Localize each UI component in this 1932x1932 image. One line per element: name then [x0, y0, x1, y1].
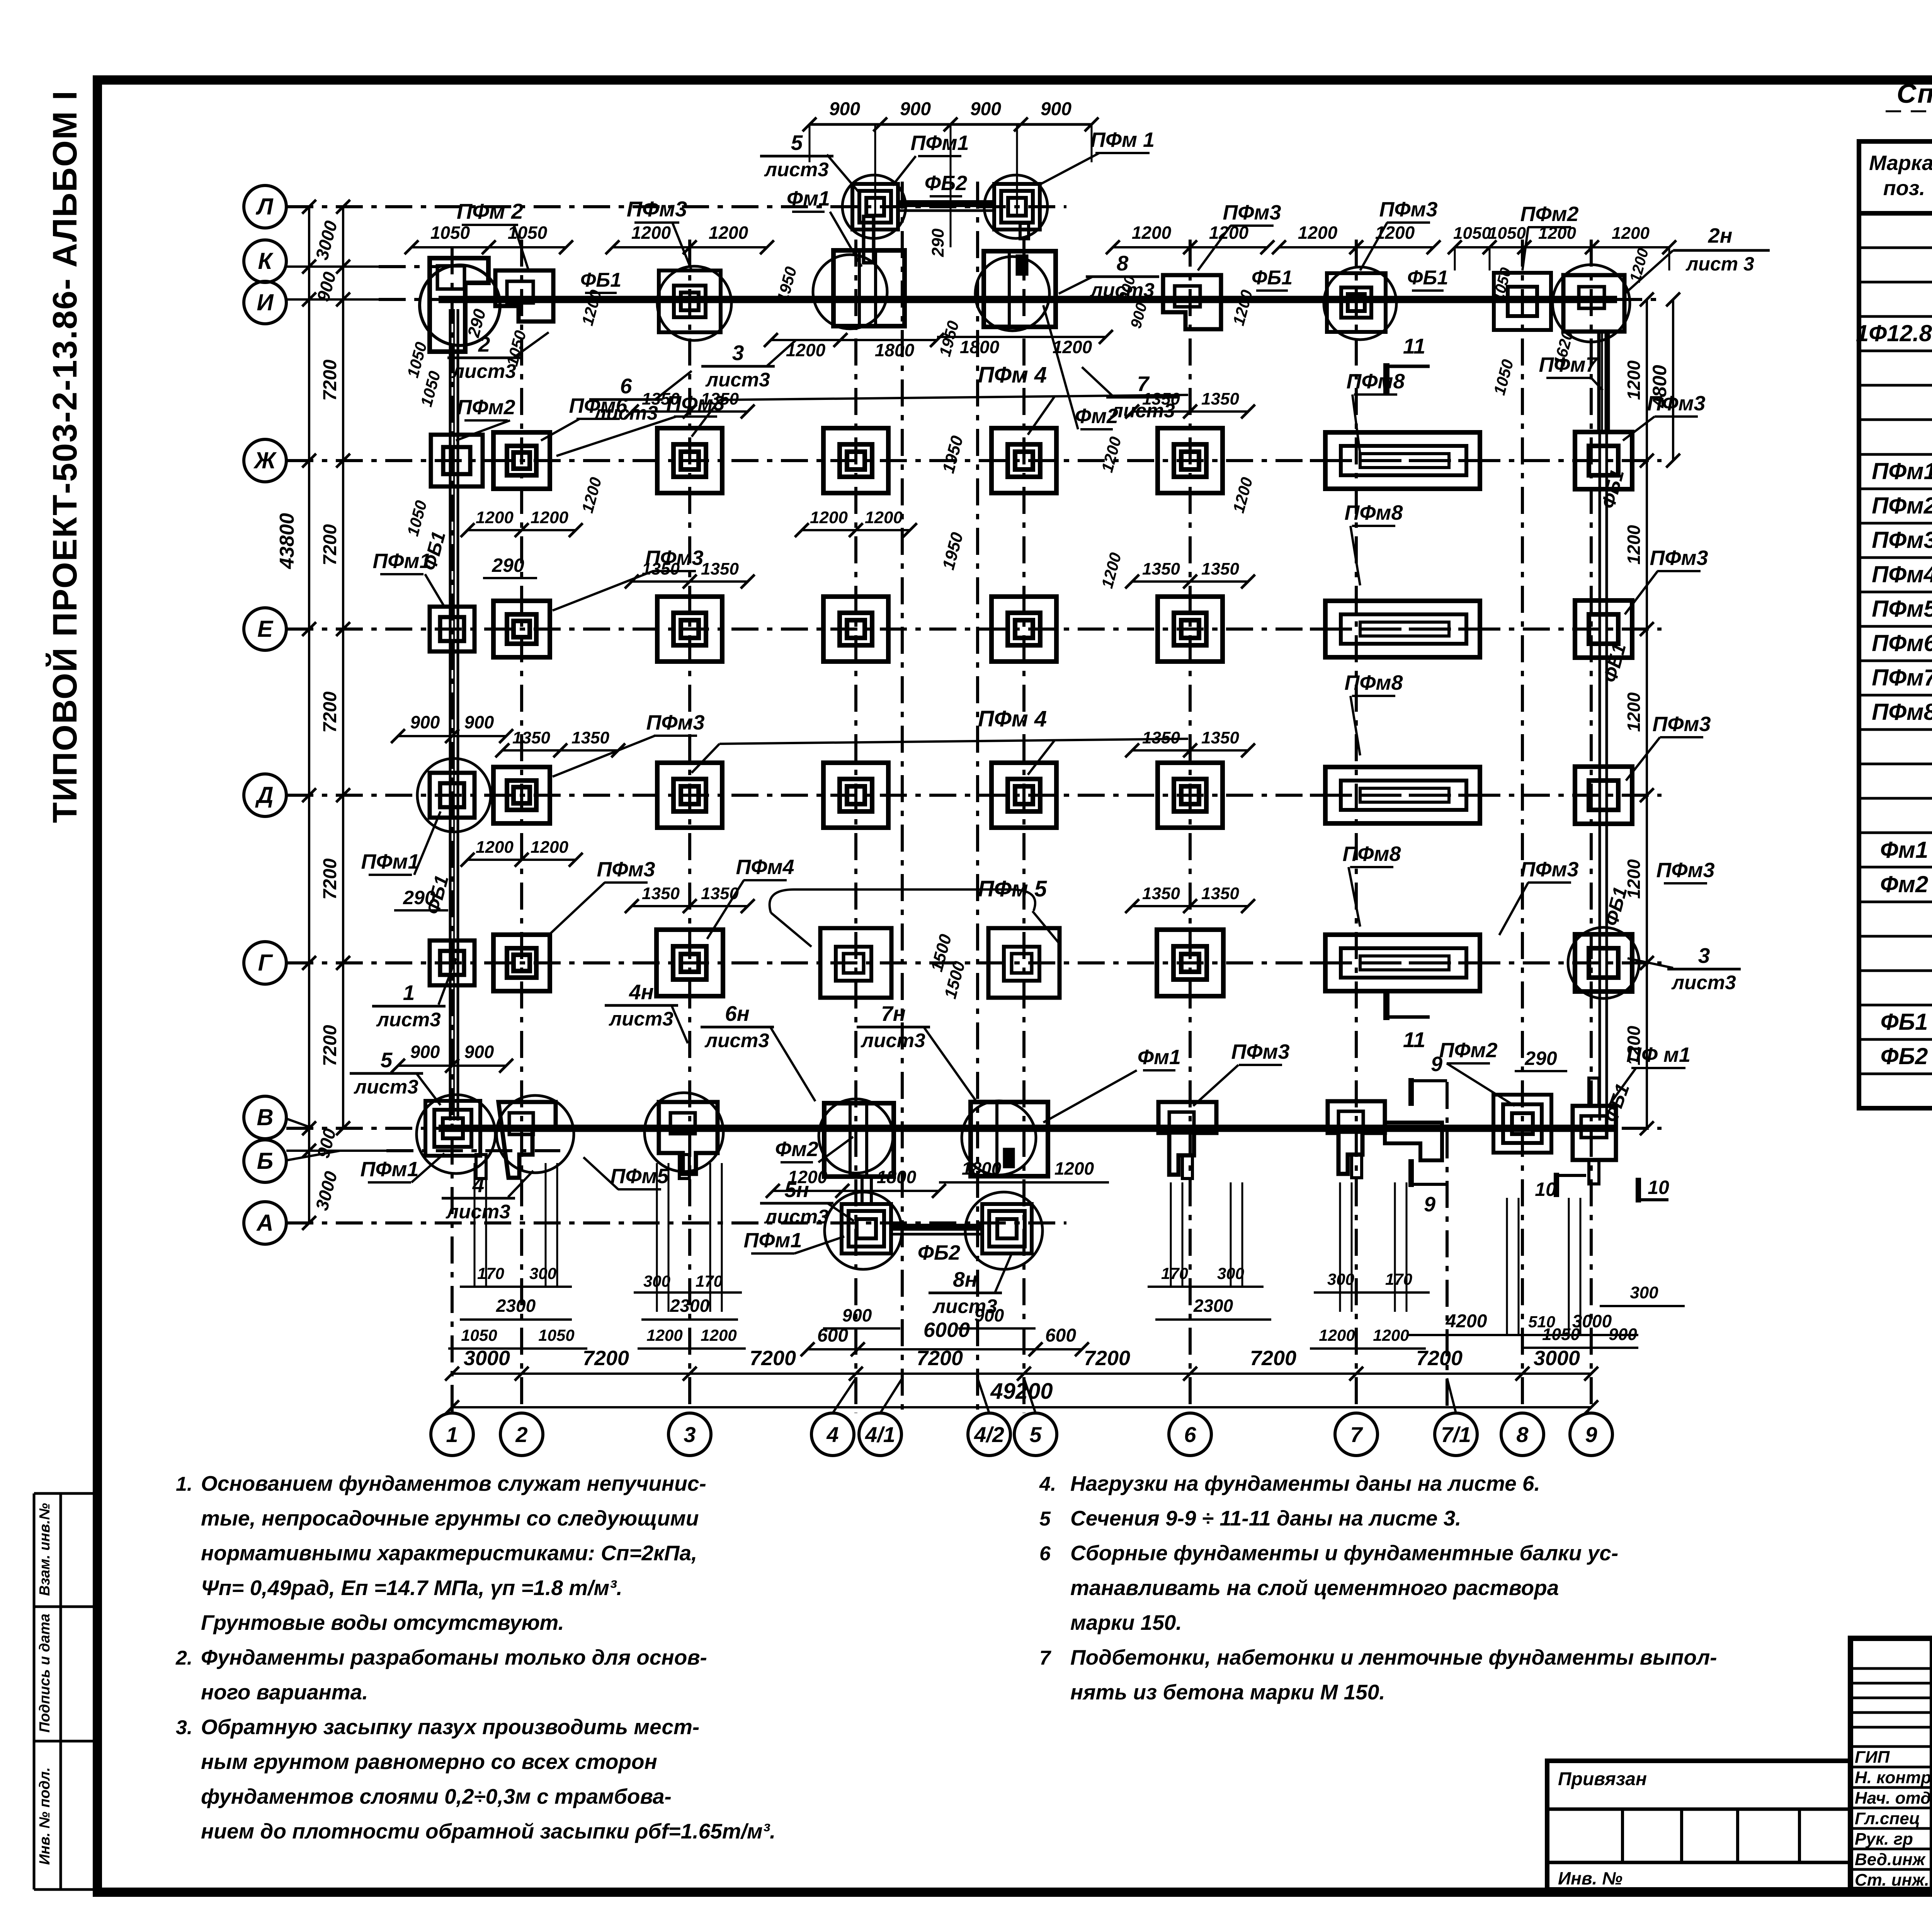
- svg-text:1350: 1350: [701, 560, 739, 578]
- svg-text:марки 150.: марки 150.: [1070, 1611, 1182, 1634]
- svg-text:4800: 4800: [1649, 365, 1670, 408]
- beam stubs row V: [476, 1155, 486, 1179]
- right dimension chain col9: [1646, 299, 1648, 1128]
- svg-text:900: 900: [829, 99, 860, 119]
- svg-text:300: 300: [529, 1264, 556, 1282]
- svg-text:Марка,: Марка,: [1869, 151, 1932, 175]
- svg-text:10: 10: [1535, 1179, 1556, 1200]
- svg-text:6: 6: [1184, 1422, 1196, 1447]
- svg-text:ПФм4: ПФм4: [736, 855, 794, 879]
- svg-text:1350: 1350: [642, 560, 680, 578]
- svg-text:ПФм3: ПФм3: [597, 858, 655, 881]
- dims 1200 1800 bottom row V: [773, 1190, 939, 1192]
- svg-text:Сечения 9-9 ÷ 11-11 даны на: Сечения 9-9 ÷ 11-11 даны на листе 3.: [1070, 1506, 1461, 1530]
- svg-text:1350: 1350: [701, 884, 739, 903]
- svg-text:900: 900: [1609, 1325, 1637, 1344]
- bottom dimension chains: [452, 1372, 1591, 1375]
- svg-text:Взам. инв.№: Взам. инв.№: [37, 1503, 53, 1596]
- svg-text:лист3: лист3: [376, 1009, 440, 1031]
- svg-text:лист3: лист3: [705, 369, 770, 391]
- svg-text:290: 290: [1524, 1048, 1557, 1069]
- svg-text:Е: Е: [257, 616, 274, 642]
- svg-text:7200: 7200: [320, 691, 340, 733]
- inner dims 1350 pairs: [632, 410, 748, 413]
- row V col3 corner piece in circle: [659, 1102, 718, 1174]
- svg-text:1Ф12.8-3: 1Ф12.8-3: [1856, 320, 1932, 346]
- link from Л foundation to Fm1: [864, 216, 874, 263]
- svg-text:6н: 6н: [725, 1002, 750, 1026]
- svg-text:ПФм2: ПФм2: [1520, 202, 1579, 226]
- svg-text:тые, непросадочные грунты со: тые, непросадочные грунты со следующими: [201, 1506, 699, 1530]
- svg-text:2300: 2300: [496, 1296, 536, 1316]
- svg-text:Ст. инж.: Ст. инж.: [1855, 1871, 1929, 1889]
- row A bottom pair with FB2: [842, 1204, 891, 1253]
- svg-text:лист3: лист3: [445, 1201, 510, 1223]
- svg-text:Рук. гр: Рук. гр: [1855, 1830, 1913, 1849]
- section mark 11-11 bottom: [1383, 989, 1389, 1020]
- svg-text:7200: 7200: [1416, 1347, 1463, 1370]
- PFm8 plates rows Ж..Г: [1325, 432, 1480, 489]
- svg-text:5: 5: [1029, 1422, 1042, 1447]
- svg-text:ПФм3: ПФм3: [646, 711, 705, 734]
- svg-text:2: 2: [515, 1422, 527, 1447]
- svg-text:1200: 1200: [1375, 223, 1415, 243]
- svg-text:ПФм8: ПФм8: [1345, 501, 1403, 524]
- svg-text:А: А: [256, 1210, 273, 1236]
- svg-text:ПФм5: ПФм5: [611, 1165, 669, 1188]
- FB1 beam row I: [439, 296, 1617, 303]
- svg-text:7200: 7200: [320, 524, 340, 565]
- svg-text:4200: 4200: [1446, 1311, 1487, 1332]
- svg-text:4.: 4.: [1039, 1473, 1056, 1495]
- svg-text:3.: 3.: [176, 1716, 192, 1739]
- FB1 beam col1 vertical: [449, 309, 452, 1121]
- svg-text:Б: Б: [257, 1148, 273, 1174]
- svg-text:Ж: Ж: [253, 447, 277, 473]
- svg-text:ПФм8: ПФм8: [1347, 370, 1405, 393]
- svg-text:Обратную засыпку пазух прои: Обратную засыпку пазух производить мест-: [201, 1715, 699, 1739]
- svg-text:170: 170: [696, 1272, 723, 1290]
- svg-text:1200: 1200: [476, 838, 514, 857]
- svg-text:900: 900: [410, 1042, 440, 1062]
- svg-text:1200: 1200: [1132, 223, 1172, 243]
- top dims col1-col2 1050: [412, 246, 566, 248]
- svg-text:1350: 1350: [701, 389, 739, 408]
- axis circles columns: [431, 1413, 473, 1456]
- svg-text:1350: 1350: [1201, 884, 1239, 903]
- svg-text:ПФм7: ПФм7: [1872, 665, 1932, 690]
- svg-text:3000: 3000: [1534, 1347, 1580, 1370]
- svg-text:ПФм2: ПФм2: [1439, 1039, 1498, 1062]
- svg-text:11: 11: [1403, 334, 1425, 358]
- svg-text:Фундаменты разработаны тольк: Фундаменты разработаны только для основ-: [201, 1645, 707, 1669]
- dims 900 pairs col1 row D: [398, 735, 506, 737]
- svg-text:ПФм 4: ПФм 4: [978, 706, 1047, 731]
- svg-text:1350: 1350: [1142, 560, 1180, 578]
- row V big Fm2 col4: [824, 1103, 894, 1177]
- row I big monolith Fm2 (col5): [984, 251, 1056, 327]
- svg-text:лист3: лист3: [1671, 971, 1736, 993]
- top dims col6 1200: [1113, 246, 1267, 248]
- row V col8 plain: [1493, 1095, 1551, 1153]
- svg-text:170: 170: [477, 1264, 504, 1282]
- svg-text:1350: 1350: [642, 389, 680, 408]
- svg-text:фундаментов слоями 0,2÷0,3м: фундаментов слоями 0,2÷0,3м с трамбова-: [201, 1784, 672, 1808]
- svg-text:1350: 1350: [512, 728, 550, 747]
- svg-text:4/2: 4/2: [974, 1422, 1004, 1447]
- row I corner foundation col1: [430, 258, 488, 352]
- svg-text:Д: Д: [255, 782, 273, 808]
- row I foundation col7 in circle: [1327, 273, 1386, 332]
- row V col9 with beam: [1573, 1106, 1616, 1160]
- svg-text:1350: 1350: [571, 728, 609, 747]
- title block: [1850, 1638, 1932, 1889]
- svg-text:лист 3: лист 3: [1685, 253, 1754, 275]
- svg-text:6000: 6000: [923, 1318, 970, 1342]
- svg-text:300: 300: [1327, 1270, 1354, 1288]
- svg-text:2н: 2н: [1708, 224, 1733, 247]
- svg-text:2.: 2.: [175, 1647, 192, 1669]
- svg-text:7200: 7200: [1084, 1347, 1130, 1370]
- svg-text:лист3: лист3: [608, 1008, 673, 1030]
- svg-text:ПФм2: ПФм2: [1872, 493, 1932, 519]
- svg-text:7200: 7200: [583, 1347, 629, 1370]
- svg-text:Г: Г: [258, 950, 274, 976]
- svg-text:1200: 1200: [1538, 224, 1576, 243]
- svg-text:43800: 43800: [276, 513, 298, 570]
- svg-text:ПФм 4: ПФм 4: [978, 362, 1047, 388]
- row I corner col9: [1563, 275, 1624, 332]
- left dimension chain: [308, 207, 310, 1223]
- svg-text:нормативными характеристиками: нормативными характеристиками: Сп=2кПа,: [201, 1541, 697, 1565]
- svg-text:7200: 7200: [750, 1347, 796, 1370]
- svg-text:8: 8: [1516, 1422, 1529, 1447]
- svg-text:1: 1: [403, 981, 415, 1005]
- foundations col1 small (PFm1): [430, 607, 474, 651]
- PFm7 vertical plate below col9: [1597, 332, 1601, 433]
- svg-text:600: 600: [1045, 1325, 1076, 1346]
- svg-text:5: 5: [791, 131, 803, 155]
- svg-text:1800: 1800: [877, 1167, 917, 1187]
- svg-text:ПФм4: ПФм4: [1872, 561, 1932, 587]
- svg-text:1350: 1350: [1201, 560, 1239, 578]
- svg-text:4: 4: [826, 1422, 838, 1447]
- svg-text:Инв. №: Инв. №: [1558, 1868, 1622, 1888]
- svg-text:170: 170: [1161, 1264, 1188, 1282]
- svg-text:ПФм3: ПФм3: [1379, 198, 1438, 221]
- row I foundation col2 notched: [495, 270, 553, 321]
- svg-text:3000: 3000: [464, 1347, 510, 1370]
- svg-text:300: 300: [1630, 1283, 1658, 1302]
- row I foundation col3 in circle: [659, 270, 721, 332]
- svg-text:Вед.инж: Вед.инж: [1855, 1850, 1926, 1869]
- svg-text:900: 900: [464, 712, 494, 732]
- svg-text:Фм1: Фм1: [787, 187, 830, 210]
- svg-text:10: 10: [1648, 1177, 1669, 1198]
- svg-text:ФБ1: ФБ1: [1881, 1009, 1928, 1035]
- svg-text:ПФм8: ПФм8: [1872, 699, 1932, 725]
- svg-text:7: 7: [1350, 1422, 1363, 1447]
- svg-text:1350: 1350: [642, 884, 680, 903]
- svg-text:290: 290: [929, 228, 947, 257]
- svg-text:1200: 1200: [1624, 1026, 1644, 1065]
- svg-text:2300: 2300: [670, 1296, 710, 1316]
- svg-text:1200: 1200: [1624, 360, 1644, 400]
- inner dims 1200 pairs col2: [468, 529, 576, 531]
- svg-text:9: 9: [1424, 1193, 1435, 1216]
- svg-text:ПФм1: ПФм1: [744, 1229, 802, 1252]
- top dimensions 900 x4: [810, 123, 1092, 126]
- svg-text:ПФм6: ПФм6: [1872, 630, 1932, 656]
- svg-text:Подпись и дата: Подпись и дата: [37, 1614, 53, 1733]
- svg-text:Нагрузки на фундаменты даны: Нагрузки на фундаменты даны на листе 6.: [1070, 1471, 1540, 1495]
- svg-text:нять из бетона марки М 150: нять из бетона марки М 150.: [1070, 1680, 1385, 1704]
- svg-text:7/1: 7/1: [1441, 1422, 1471, 1447]
- foundations: middle field nested squares: [657, 428, 722, 493]
- svg-text:2300: 2300: [1193, 1296, 1233, 1316]
- svg-text:ПФм1: ПФм1: [361, 1158, 419, 1181]
- svg-text:лист3: лист3: [860, 1029, 925, 1051]
- svg-text:1200: 1200: [476, 508, 514, 527]
- svg-text:900: 900: [900, 99, 931, 119]
- svg-text:1200: 1200: [631, 223, 671, 243]
- svg-text:900: 900: [410, 712, 440, 732]
- svg-text:Фм2: Фм2: [1880, 871, 1929, 897]
- svg-text:1: 1: [446, 1422, 458, 1447]
- svg-text:900: 900: [970, 99, 1001, 119]
- row V col7 notched: [1328, 1101, 1385, 1174]
- svg-text:900: 900: [842, 1305, 872, 1325]
- svg-text:49200: 49200: [990, 1379, 1053, 1404]
- svg-text:ПФм3: ПФм3: [1650, 546, 1708, 570]
- section mark 9-9: [1408, 1078, 1414, 1106]
- svg-text:Сборные фундаменты и фундам: Сборные фундаменты и фундаментные балки …: [1070, 1541, 1618, 1565]
- svg-text:лист3: лист3: [353, 1076, 418, 1098]
- svg-text:9: 9: [1585, 1422, 1597, 1447]
- svg-text:1350: 1350: [1201, 728, 1239, 747]
- svg-text:7н: 7н: [881, 1002, 906, 1026]
- top dims col7 1200: [1279, 246, 1434, 248]
- svg-text:1200: 1200: [810, 508, 848, 527]
- svg-text:В: В: [257, 1104, 273, 1130]
- svg-text:ФБ2: ФБ2: [1881, 1043, 1928, 1069]
- svg-text:7200: 7200: [320, 359, 340, 401]
- svg-text:1200: 1200: [531, 508, 568, 527]
- svg-text:ПФм3: ПФм3: [1520, 858, 1579, 881]
- svg-text:900: 900: [464, 1042, 494, 1062]
- svg-text:1200: 1200: [531, 838, 568, 857]
- svg-text:ФБ1: ФБ1: [580, 269, 621, 291]
- svg-text:ПФм3: ПФм3: [1223, 201, 1281, 224]
- svg-text:170: 170: [1385, 1270, 1412, 1288]
- row V col2 corner piece: [498, 1102, 556, 1178]
- svg-text:Л: Л: [255, 194, 274, 219]
- svg-text:Гл.спец: Гл.спец: [1855, 1809, 1920, 1828]
- svg-text:Привязан: Привязан: [1558, 1769, 1647, 1789]
- svg-text:ПФм3: ПФм3: [1872, 527, 1932, 553]
- svg-text:11: 11: [1403, 1027, 1425, 1052]
- svg-text:ФБ2: ФБ2: [925, 172, 967, 195]
- svg-text:1350: 1350: [1201, 389, 1239, 408]
- svg-text:1050: 1050: [461, 1326, 497, 1344]
- row I foundation col6 notched: [1163, 275, 1221, 329]
- svg-text:Спецификация к схеме распол: Спецификация к схеме расположения фундам…: [1897, 78, 1932, 109]
- bottom 600 6000 600: [808, 1348, 1082, 1350]
- svg-text:8н: 8н: [953, 1267, 978, 1291]
- top dims col8-9 1050 1200: [1455, 246, 1669, 248]
- foundations col9 PFm3 with beam: [1575, 432, 1632, 489]
- svg-text:7200: 7200: [320, 858, 340, 900]
- svg-text:ПФм1: ПФм1: [911, 131, 969, 155]
- svg-text:1200: 1200: [646, 1326, 682, 1344]
- svg-text:ПФм3: ПФм3: [1656, 859, 1715, 882]
- svg-text:ФБ2: ФБ2: [918, 1241, 960, 1264]
- svg-text:900: 900: [975, 1305, 1004, 1325]
- foundation col1 row Ж (PFm2): [431, 435, 483, 486]
- svg-text:1350: 1350: [1142, 728, 1180, 747]
- svg-text:1050: 1050: [430, 223, 470, 243]
- row L foundation pair with FB2: [852, 184, 898, 230]
- svg-text:Ψп= 0,49рад, Еп =14.7 МПа, γп: Ψп= 0,49рад, Еп =14.7 МПа, γп =1.8 т/м³.: [201, 1576, 622, 1600]
- section mark 10-10: [1554, 1173, 1559, 1197]
- svg-text:1350: 1350: [1142, 884, 1180, 903]
- svg-text:ного варианта.: ного варианта.: [201, 1680, 368, 1704]
- svg-text:И: И: [257, 289, 274, 315]
- svg-text:ПФм 1: ПФм 1: [1090, 128, 1155, 151]
- axis lines horizontal: [286, 205, 1066, 208]
- svg-text:3: 3: [732, 341, 744, 365]
- svg-text:7200: 7200: [320, 1025, 340, 1066]
- svg-text:290: 290: [492, 554, 524, 576]
- svg-text:5: 5: [1039, 1508, 1051, 1530]
- svg-text:ПФм1: ПФм1: [1872, 458, 1932, 484]
- svg-text:танавливать на слой цементн: танавливать на слой цементного раствора: [1070, 1576, 1559, 1600]
- svg-text:ГИП: ГИП: [1855, 1748, 1890, 1767]
- svg-text:6: 6: [1039, 1543, 1051, 1565]
- svg-text:5: 5: [381, 1048, 393, 1072]
- foundations PFm5 row G: [820, 928, 891, 998]
- svg-text:1800: 1800: [960, 337, 1000, 357]
- svg-text:8: 8: [1117, 251, 1129, 275]
- row I foundation col8: [1494, 273, 1551, 330]
- axis circles rows: [244, 185, 286, 228]
- row V 7/1 L-piece: [1385, 1122, 1442, 1160]
- svg-text:1050: 1050: [1453, 224, 1491, 243]
- svg-text:1800: 1800: [875, 340, 915, 360]
- svg-text:1.: 1.: [176, 1473, 192, 1495]
- svg-text:ПФм3: ПФм3: [627, 197, 687, 221]
- svg-text:6: 6: [620, 374, 632, 398]
- svg-text:ПФм5: ПФм5: [1872, 596, 1932, 622]
- top dims col3 1200: [612, 246, 767, 248]
- privyazan block: [1547, 1761, 1850, 1889]
- svg-text:4н: 4н: [629, 980, 654, 1004]
- svg-text:1050: 1050: [1542, 1325, 1580, 1344]
- svg-text:1200: 1200: [788, 1167, 828, 1187]
- svg-text:1200: 1200: [1624, 692, 1644, 732]
- svg-text:7: 7: [1039, 1647, 1051, 1669]
- svg-text:ПФм1: ПФм1: [361, 850, 420, 873]
- svg-text:1050: 1050: [508, 223, 548, 243]
- svg-text:Фм1: Фм1: [1138, 1046, 1181, 1069]
- svg-text:ным грунтом равномерно со: ным грунтом равномерно со всех сторон: [201, 1750, 657, 1774]
- svg-text:1050: 1050: [538, 1326, 574, 1344]
- svg-text:1200: 1200: [1373, 1326, 1409, 1344]
- svg-text:3: 3: [684, 1422, 696, 1447]
- svg-text:ТИПОВОЙ ПРОЕКТ-503-2-13.86- А: ТИПОВОЙ ПРОЕКТ-503-2-13.86- АЛЬБОМ I: [46, 90, 84, 823]
- svg-text:900: 900: [1041, 99, 1071, 119]
- svg-text:ПФм8: ПФм8: [1343, 842, 1401, 866]
- svg-text:лист3: лист3: [764, 1206, 828, 1228]
- svg-text:Подбетонки, набетонки и лент: Подбетонки, набетонки и ленточные фундам…: [1070, 1645, 1717, 1669]
- svg-text:нием до плотности обратной: нием до плотности обратной засыпки ρбf=1…: [201, 1819, 776, 1843]
- svg-text:300: 300: [1217, 1264, 1244, 1282]
- svg-text:1200: 1200: [1053, 337, 1092, 357]
- svg-text:1200: 1200: [1209, 223, 1249, 243]
- svg-text:300: 300: [643, 1272, 670, 1290]
- svg-text:1200: 1200: [865, 508, 903, 527]
- svg-text:1200: 1200: [701, 1326, 736, 1344]
- axis lines vertical: [451, 247, 454, 1413]
- svg-text:ПФм 2: ПФм 2: [457, 199, 523, 223]
- FB1 beam row V: [439, 1125, 1617, 1132]
- svg-text:1800: 1800: [962, 1158, 1002, 1179]
- svg-text:4/1: 4/1: [865, 1422, 895, 1447]
- svg-text:1200: 1200: [1624, 859, 1644, 899]
- bottom pit dimension extensions: [474, 1163, 476, 1287]
- svg-text:1200: 1200: [1054, 1158, 1094, 1179]
- svg-text:1200: 1200: [1298, 223, 1338, 243]
- svg-text:Фм1: Фм1: [1880, 837, 1929, 863]
- svg-text:Фм2: Фм2: [775, 1138, 818, 1161]
- section mark 11-11 top: [1383, 363, 1389, 394]
- svg-text:1200: 1200: [1612, 224, 1650, 243]
- svg-text:поз.: поз.: [1883, 177, 1925, 200]
- svg-text:Грунтовые воды отсутствуют.: Грунтовые воды отсутствуют.: [201, 1611, 564, 1634]
- svg-text:Нач. отд: Нач. отд: [1855, 1789, 1931, 1808]
- svg-text:К: К: [258, 248, 274, 274]
- svg-text:7200: 7200: [1250, 1347, 1296, 1370]
- svg-text:1200: 1200: [1319, 1326, 1355, 1344]
- svg-text:Н. контр: Н. контр: [1855, 1768, 1931, 1787]
- svg-text:1200: 1200: [786, 340, 826, 360]
- svg-text:лист3: лист3: [704, 1029, 769, 1051]
- row V corner col1: [425, 1101, 480, 1156]
- svg-text:ФБ1: ФБ1: [1407, 267, 1448, 289]
- svg-text:1050: 1050: [1488, 224, 1526, 243]
- row V col6 notched: [1158, 1102, 1216, 1175]
- svg-text:ПФм2: ПФм2: [457, 396, 515, 419]
- dims 1200 1800 row I lower: [771, 339, 937, 341]
- row I big monolith Fm1 (col4): [833, 250, 905, 326]
- svg-text:ПФм3: ПФм3: [1653, 713, 1711, 736]
- bottom right dims 4200 510 3000 1050 900: [1406, 1334, 1638, 1336]
- row V big Fm1 col5: [971, 1102, 1048, 1176]
- svg-text:Основанием фундаментов служа: Основанием фундаментов служат непучинис-: [201, 1471, 706, 1495]
- svg-text:1200: 1200: [1624, 525, 1644, 565]
- svg-text:ПФм8: ПФм8: [1345, 671, 1403, 694]
- FB1 beam col9 vertical: [1599, 433, 1601, 1121]
- svg-text:лист3: лист3: [764, 158, 828, 180]
- foundations col2 (PFm6/PFm3): [493, 432, 550, 489]
- svg-text:1350: 1350: [1142, 389, 1180, 408]
- svg-text:1200: 1200: [709, 223, 748, 243]
- svg-text:ПФм3: ПФм3: [1231, 1040, 1290, 1063]
- svg-text:ФБ1: ФБ1: [1252, 267, 1293, 289]
- svg-text:Инв. № подл.: Инв. № подл.: [37, 1767, 53, 1865]
- svg-text:3: 3: [1698, 944, 1710, 968]
